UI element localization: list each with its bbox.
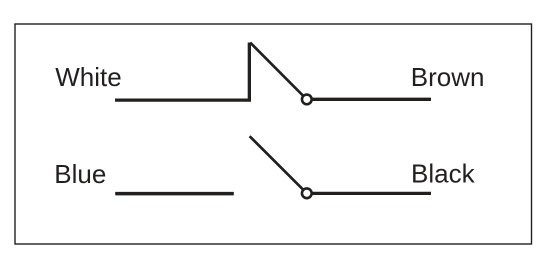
svg-text:Black: Black (411, 158, 476, 188)
wire Blue lead (115, 192, 234, 196)
wire Black lead (307, 192, 431, 195)
svg-text:White: White (55, 62, 121, 92)
svg-text:Blue: Blue (54, 159, 106, 189)
svg-text:Brown: Brown (411, 62, 485, 92)
switch contact circle (bottom pole) (302, 188, 312, 198)
wire Brown lead (307, 98, 431, 101)
switch lever (top pole, White-Brown) (250, 43, 307, 100)
wire White lead with terminal post (115, 43, 249, 102)
switch contact circle (top pole) (302, 95, 312, 105)
switch lever (bottom pole, Blue-Black, open) (250, 136, 307, 193)
